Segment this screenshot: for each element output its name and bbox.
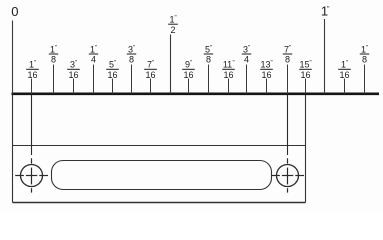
label 13/16" [260,60,273,80]
label 7/8" [283,44,292,64]
svg-text:": " [346,61,348,67]
label 1/8" [360,44,369,64]
svg-text:8: 8 [285,55,290,65]
graduation tick 1/4" [93,65,95,94]
label 15/16" [299,60,312,80]
label 9/16" [182,60,195,80]
label 1/16" [338,60,351,80]
graduation tick 3/4" [246,65,248,94]
graduation tick 1/8" [53,65,55,94]
svg-text:0: 0 [11,4,18,19]
svg-text:8: 8 [51,55,56,65]
graduation tick 7/8" [287,65,289,94]
slot (rounded rectangular cutout) [52,161,272,190]
graduation tick 1/16" [31,79,33,94]
graduation tick 9/16" [188,79,190,94]
svg-text:16: 16 [27,70,37,80]
svg-text:": " [95,45,97,51]
graduation tick 15/16" [305,79,307,94]
svg-text:8: 8 [362,55,367,65]
svg-text:": " [75,61,77,67]
svg-text:16: 16 [300,70,310,80]
svg-text:2: 2 [170,25,175,35]
graduation tick 5/16" [112,79,114,94]
graduation tick 13/16" [266,79,268,94]
graduation tick 3/16" [73,79,75,94]
plate outline: left and right edges extend up to the ruler [13,95,306,203]
graduation tick 11/16" [228,79,230,94]
svg-text:15: 15 [299,60,309,70]
svg-text:11: 11 [223,60,232,70]
svg-text:8: 8 [129,55,134,65]
label 1/2" [168,15,178,35]
graduation 1 inch mark [321,3,330,93]
graduation tick 3/8" [131,65,133,94]
svg-text:13: 13 [260,60,270,70]
graduation tick 1/8" [364,65,366,94]
svg-text:16: 16 [261,70,271,80]
svg-text:": " [190,61,192,67]
label 1/16" [26,60,39,80]
label 3/4" [242,44,251,64]
svg-text:": " [289,45,291,51]
graduation tick 5/8" [208,65,210,94]
svg-text:": " [366,45,368,51]
svg-text:": " [114,61,116,67]
graduation tick 1/2" [170,35,172,94]
label 1/8" [49,44,58,64]
svg-text:16: 16 [107,70,117,80]
svg-text:4: 4 [244,55,249,65]
svg-text:8: 8 [206,55,211,65]
label 3/8" [127,44,136,64]
label 11/16" [222,60,235,80]
label 3/16" [67,60,80,80]
svg-text:": " [152,61,154,67]
svg-text:16: 16 [183,70,193,80]
svg-text:16: 16 [223,70,233,80]
ruler scale baseline [12,92,380,95]
svg-text:": " [233,61,235,67]
svg-text:": " [210,45,212,51]
svg-text:": " [310,61,312,67]
svg-text:": " [133,45,135,51]
svg-text:4: 4 [91,55,96,65]
svg-text:": " [271,61,273,67]
svg-text:16: 16 [339,70,349,80]
hole B (right): circle with CAD center mark, vertical extension line up to ruler [271,95,304,193]
graduation 0 (zero mark), line continues down as plate left edge [11,4,18,94]
label 1/4" [89,44,98,64]
svg-text:": " [248,45,250,51]
label 5/16" [106,60,119,80]
graduation tick 1/16" [344,79,346,94]
svg-text:": " [34,61,36,67]
svg-text:": " [327,6,330,13]
svg-text:": " [55,45,57,51]
graduation tick 7/16" [150,79,152,94]
svg-text:16: 16 [145,70,155,80]
svg-text:16: 16 [68,70,78,80]
hole A (left): circle with CAD center mark, vertical extension line up to ruler [15,95,48,193]
label 7/16" [144,60,157,80]
label 5/8" [204,44,213,64]
svg-text:": " [175,16,177,22]
